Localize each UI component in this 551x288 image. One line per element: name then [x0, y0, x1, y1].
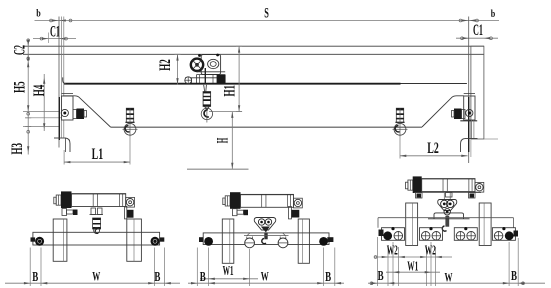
svg-text:b: b — [36, 8, 41, 20]
svg-text:W: W — [261, 269, 269, 284]
svg-text:W1: W1 — [223, 264, 234, 279]
svg-text:H1: H1 — [222, 85, 239, 97]
svg-text:H5: H5 — [12, 81, 29, 93]
svg-text:H2: H2 — [157, 59, 174, 71]
svg-text:C1: C1 — [50, 23, 60, 40]
svg-text:B: B — [32, 270, 38, 285]
svg-text:L2: L2 — [427, 140, 439, 157]
svg-text:L1: L1 — [92, 146, 104, 163]
svg-text:b: b — [491, 8, 496, 20]
svg-text:W1: W1 — [407, 260, 418, 275]
svg-text:C1: C1 — [473, 22, 483, 39]
svg-text:H: H — [214, 138, 231, 144]
svg-text:S: S — [264, 6, 269, 22]
svg-text:B: B — [511, 269, 517, 284]
svg-text:H4: H4 — [31, 85, 48, 97]
svg-text:C2: C2 — [12, 45, 29, 55]
svg-text:W: W — [92, 269, 100, 284]
svg-text:B: B — [325, 270, 331, 285]
svg-text:B: B — [200, 270, 206, 285]
svg-text:W2: W2 — [387, 242, 398, 257]
svg-text:W2: W2 — [425, 242, 436, 257]
svg-text:H3: H3 — [9, 143, 26, 155]
svg-text:B: B — [154, 270, 160, 285]
svg-text:W: W — [445, 269, 453, 284]
svg-text:B: B — [378, 269, 384, 284]
